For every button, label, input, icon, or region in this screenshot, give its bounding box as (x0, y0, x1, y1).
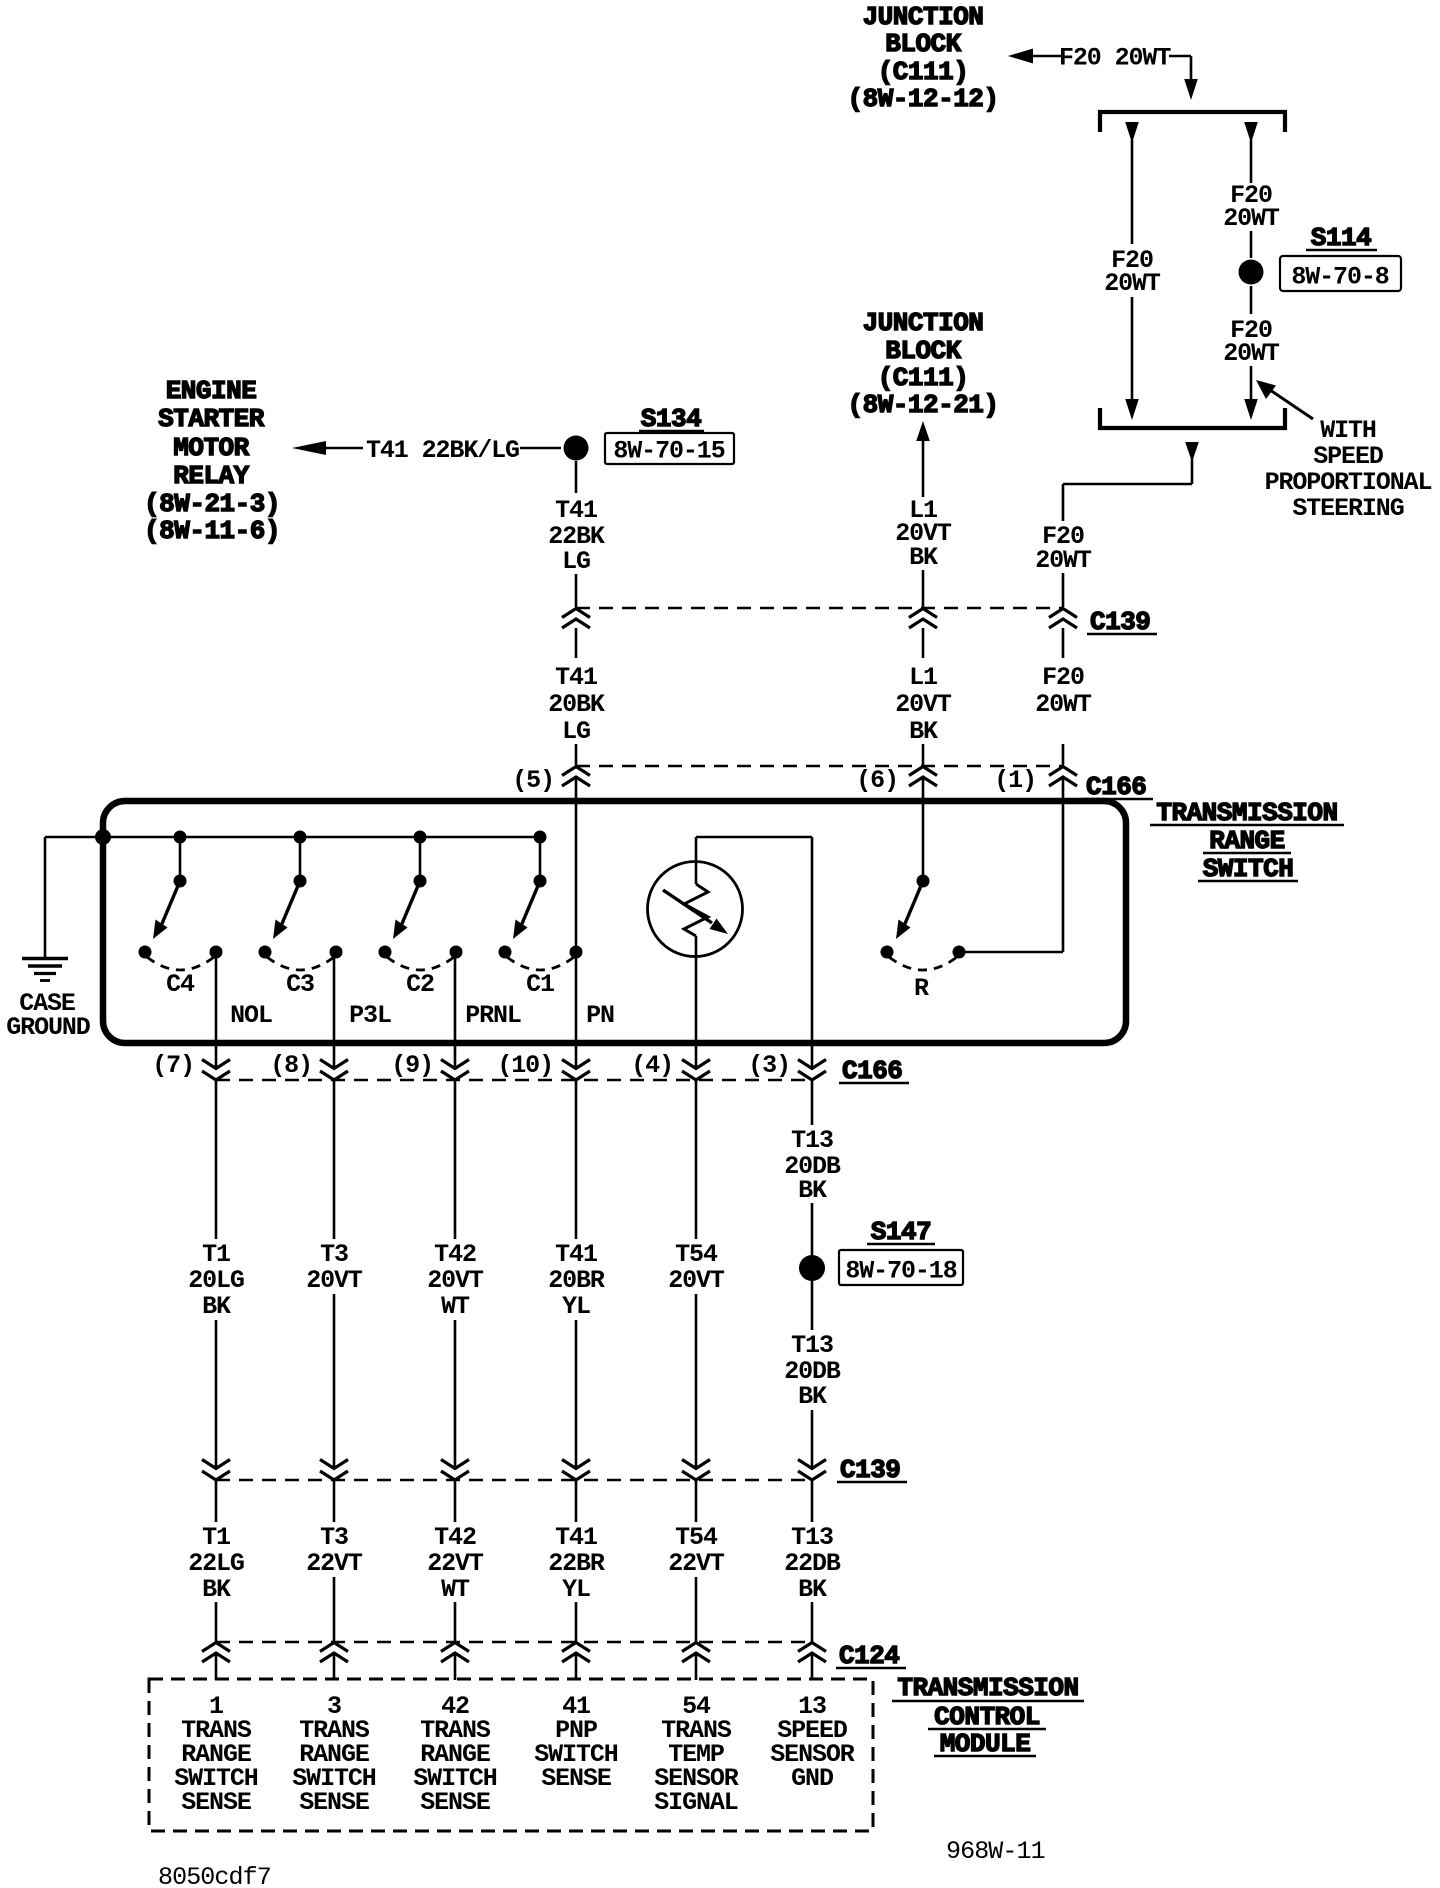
svg-text:F20 20WT: F20 20WT (1059, 44, 1171, 73)
wire into TCM pin at x=455 (454, 1655, 457, 1680)
svg-text:T41: T41 (555, 663, 597, 692)
wire into TCM pin at x=576 (575, 1655, 578, 1680)
svg-text:20VT: 20VT (668, 1266, 725, 1295)
bus wire inside switch (103, 836, 540, 839)
svg-text:MOTOR: MOTOR (173, 433, 249, 463)
TCM pin 42 (413, 1692, 497, 1817)
wire T13 20DB BK (below S147) (784, 1281, 841, 1469)
connector C166 (bottom, pins 7 8 9 10 4 3) (152, 1051, 909, 1086)
svg-text:PROPORTIONAL: PROPORTIONAL (1265, 468, 1432, 497)
svg-text:F20: F20 (1042, 663, 1084, 692)
svg-text:20WT: 20WT (1223, 204, 1280, 233)
svg-text:TRANSMISSION: TRANSMISSION (897, 1673, 1078, 1703)
wire T1 22LG BK (188, 1480, 244, 1643)
wire L1 20VT BK between C139 and C166 (895, 628, 952, 765)
svg-text:S114: S114 (1311, 223, 1371, 253)
svg-text:YL: YL (562, 1575, 590, 1604)
svg-text:PN: PN (586, 1001, 614, 1030)
svg-text:T54: T54 (675, 1523, 718, 1552)
svg-text:(10): (10) (497, 1051, 553, 1080)
svg-text:BLOCK: BLOCK (885, 336, 961, 366)
svg-text:(6): (6) (856, 766, 898, 795)
svg-text:SENSE: SENSE (181, 1788, 251, 1817)
svg-text:8050cdf7: 8050cdf7 (158, 1863, 271, 1888)
svg-text:RANGE: RANGE (1209, 826, 1285, 856)
svg-text:LG: LG (562, 717, 590, 746)
svg-text:STARTER: STARTER (158, 404, 265, 434)
wire into TCM pin at x=334 (333, 1655, 336, 1680)
svg-text:(1): (1) (994, 766, 1036, 795)
svg-text:C166: C166 (842, 1056, 902, 1086)
wire T41 22BR YL (548, 1480, 605, 1643)
svg-text:SENSE: SENSE (420, 1788, 490, 1817)
svg-text:C2: C2 (406, 970, 434, 999)
with speed proportional steering note (1256, 380, 1432, 523)
svg-text:T3: T3 (320, 1523, 348, 1552)
svg-text:BK: BK (909, 543, 938, 572)
svg-text:20WT: 20WT (1035, 690, 1092, 719)
svg-text:C139: C139 (1090, 607, 1150, 637)
connector C139 (bottom) (202, 1455, 907, 1485)
svg-text:T54: T54 (675, 1240, 718, 1269)
svg-text:T13: T13 (791, 1523, 833, 1552)
svg-text:(4): (4) (631, 1051, 673, 1080)
junction block C111 (8W-12-21) label (847, 308, 998, 420)
wire F20 20WT (left branch inside junction block) (1104, 122, 1161, 420)
svg-text:T1: T1 (202, 1523, 230, 1552)
svg-text:TRANSMISSION: TRANSMISSION (1156, 798, 1337, 828)
splice S147 (799, 1217, 963, 1286)
svg-text:C3: C3 (286, 970, 314, 999)
junction block C111 bottom bracket (1100, 408, 1285, 428)
wire T3 22VT (306, 1480, 363, 1643)
svg-text:T41: T41 (555, 1523, 597, 1552)
wire into TCM pin at x=216 (215, 1655, 218, 1680)
wire PRNL to pin 9 (454, 952, 457, 1069)
svg-text:T13: T13 (791, 1331, 833, 1360)
svg-text:SENSE: SENSE (541, 1764, 611, 1793)
svg-text:(7): (7) (152, 1051, 194, 1080)
svg-text:S147: S147 (871, 1217, 931, 1247)
svg-text:T41: T41 (555, 496, 597, 525)
wire F20 20WT from junction block down to C139 (1035, 442, 1199, 607)
wire F20 20WT (right branch through splice S114) (1223, 122, 1280, 258)
svg-text:22VT: 22VT (427, 1549, 484, 1578)
svg-text:BK: BK (798, 1382, 827, 1411)
svg-text:20WT: 20WT (1104, 269, 1161, 298)
svg-text:R: R (914, 974, 929, 1003)
svg-text:22LG: 22LG (188, 1549, 244, 1578)
wire F20 20WT between C139 and C166 (1035, 628, 1092, 765)
svg-text:(5): (5) (512, 766, 554, 795)
svg-text:BK: BK (909, 717, 938, 746)
switch contact C1 (499, 831, 583, 1000)
wire F20 20WT to junction block (arrow + label) (1008, 44, 1198, 101)
transmission control module dashed box (149, 1679, 873, 1831)
TCM pin 54 (654, 1692, 739, 1817)
svg-text:BLOCK: BLOCK (885, 29, 961, 59)
svg-text:PRNL: PRNL (465, 1001, 521, 1030)
svg-text:T42: T42 (434, 1523, 476, 1552)
transmission range switch label (1150, 798, 1344, 884)
svg-text:20WT: 20WT (1035, 546, 1092, 575)
svg-text:YL: YL (562, 1292, 590, 1321)
thermistor (trans temp sensor) (648, 861, 743, 957)
svg-text:T3: T3 (320, 1240, 348, 1269)
engine starter motor relay label (144, 376, 280, 546)
svg-text:GROUND: GROUND (6, 1013, 91, 1042)
wire T41 20BK LG between C139 and C166 (548, 628, 605, 765)
svg-text:ENGINE: ENGINE (166, 376, 257, 406)
svg-text:T41 22BK/LG: T41 22BK/LG (366, 436, 519, 465)
wire T41 22BK/LG to relay (arrow + label) (292, 436, 561, 465)
wire T54 20VT (668, 1080, 725, 1469)
wire T42 20VT WT (427, 1080, 484, 1469)
svg-text:CONTROL: CONTROL (934, 1702, 1040, 1732)
svg-text:S134: S134 (641, 404, 701, 434)
svg-text:8W-70-15: 8W-70-15 (613, 437, 724, 466)
connector C139 (top) (562, 607, 1157, 637)
svg-text:T13: T13 (791, 1126, 833, 1155)
switch contact C2 (379, 831, 463, 1000)
wire T41 22BK LG from S134 to C139 (548, 461, 605, 607)
svg-text:968W-11: 968W-11 (946, 1837, 1045, 1866)
junction block C111 top bracket (1100, 112, 1285, 132)
wire PN through box (575, 778, 578, 1069)
transmission control module label (892, 1673, 1084, 1759)
node: bus junction on box edge (95, 829, 111, 845)
switch contact R (881, 778, 966, 1003)
svg-text:L1: L1 (909, 663, 937, 692)
svg-text:C1: C1 (526, 970, 554, 999)
wire F20 into box to R contact (959, 778, 1063, 952)
svg-text:22VT: 22VT (306, 1549, 363, 1578)
connector C166 (top, pins 5 6 1) (512, 766, 1153, 802)
svg-text:T41: T41 (555, 1240, 597, 1269)
svg-text:C124: C124 (839, 1641, 899, 1671)
svg-text:T42: T42 (434, 1240, 476, 1269)
wire thermistor top jog to T13 branch (696, 837, 812, 1069)
node labels NOL P3L PRNL PN (230, 1001, 614, 1030)
svg-text:20BK: 20BK (548, 690, 605, 719)
svg-text:BK: BK (798, 1575, 827, 1604)
svg-text:P3L: P3L (349, 1001, 391, 1030)
TCM pin 1 (174, 1692, 258, 1817)
wire to case ground (45, 837, 103, 957)
wire F20 20WT below S114 (1223, 286, 1280, 420)
connector C124 (202, 1641, 906, 1671)
svg-text:T1: T1 (202, 1240, 230, 1269)
svg-text:(8W-11-6): (8W-11-6) (144, 516, 280, 546)
wire into TCM pin at x=696 (695, 1655, 698, 1680)
svg-text:JUNCTION: JUNCTION (863, 2, 984, 32)
wire T54 22VT (668, 1480, 725, 1643)
svg-text:(C111): (C111) (878, 363, 969, 393)
wire T13 20DB BK (above S147) (784, 1080, 841, 1255)
svg-text:C4: C4 (166, 970, 195, 999)
svg-text:WT: WT (441, 1575, 470, 1604)
svg-text:BK: BK (798, 1176, 827, 1205)
TCM pin 13 (770, 1692, 855, 1793)
svg-text:SENSE: SENSE (299, 1788, 369, 1817)
wire into TCM pin at x=812 (811, 1655, 814, 1680)
svg-text:(3): (3) (748, 1051, 790, 1080)
wire L1 20VT BK up to junction block (895, 421, 952, 607)
splice S134 (564, 404, 735, 466)
TCM pin 3 (292, 1692, 376, 1817)
svg-text:SWITCH: SWITCH (1203, 854, 1294, 884)
wire T3 20VT (306, 1080, 363, 1469)
wire T41 20BR YL (548, 1080, 605, 1469)
svg-text:WITH: WITH (1320, 416, 1376, 445)
svg-text:8W-70-8: 8W-70-8 (1291, 263, 1388, 292)
svg-text:22BR: 22BR (548, 1549, 605, 1578)
svg-text:JUNCTION: JUNCTION (863, 308, 984, 338)
switch contact C3 (259, 831, 343, 1000)
svg-text:(8W-12-12): (8W-12-12) (847, 84, 998, 114)
svg-text:SIGNAL: SIGNAL (654, 1788, 738, 1817)
svg-text:20WT: 20WT (1223, 339, 1280, 368)
svg-text:C139: C139 (840, 1455, 900, 1485)
svg-text:20BR: 20BR (548, 1266, 605, 1295)
svg-text:22VT: 22VT (668, 1549, 725, 1578)
splice S114 (1239, 223, 1402, 292)
svg-text:22DB: 22DB (784, 1549, 841, 1578)
svg-text:(8W-21-3): (8W-21-3) (144, 489, 280, 519)
svg-text:GND: GND (791, 1764, 834, 1793)
wire NOL to pin 7 (215, 952, 218, 1069)
svg-text:20LG: 20LG (188, 1266, 244, 1295)
svg-text:NOL: NOL (230, 1001, 272, 1030)
svg-text:WT: WT (441, 1292, 470, 1321)
TCM pin 41 (534, 1692, 618, 1793)
wire T42 22VT WT (427, 1480, 484, 1643)
svg-text:20VT: 20VT (895, 690, 952, 719)
svg-text:BK: BK (202, 1575, 231, 1604)
transmission range switch outline (103, 801, 1126, 1043)
svg-text:(C111): (C111) (878, 57, 969, 87)
svg-text:(8): (8) (270, 1051, 312, 1080)
wire T13 22DB BK (784, 1480, 841, 1643)
svg-text:LG: LG (562, 547, 590, 576)
wire P3L to pin 8 (333, 952, 336, 1069)
wire thermistor bottom to pin 4 (695, 957, 698, 1069)
svg-text:(8W-12-21): (8W-12-21) (847, 390, 998, 420)
case ground symbol (6, 959, 91, 1043)
svg-text:MODULE: MODULE (940, 1729, 1031, 1759)
svg-text:SPEED: SPEED (1313, 442, 1384, 471)
svg-text:BK: BK (202, 1292, 231, 1321)
svg-text:(9): (9) (391, 1051, 433, 1080)
svg-text:20VT: 20VT (306, 1266, 363, 1295)
svg-text:C166: C166 (1086, 772, 1146, 802)
svg-text:8W-70-18: 8W-70-18 (845, 1257, 956, 1286)
svg-text:RELAY: RELAY (173, 461, 249, 491)
junction block C111 (8W-12-12) label (847, 2, 998, 114)
switch contact C4 (139, 831, 223, 1000)
svg-text:STEERING: STEERING (1292, 494, 1403, 523)
wire T1 20LG BK (188, 1080, 244, 1469)
svg-text:20VT: 20VT (427, 1266, 484, 1295)
